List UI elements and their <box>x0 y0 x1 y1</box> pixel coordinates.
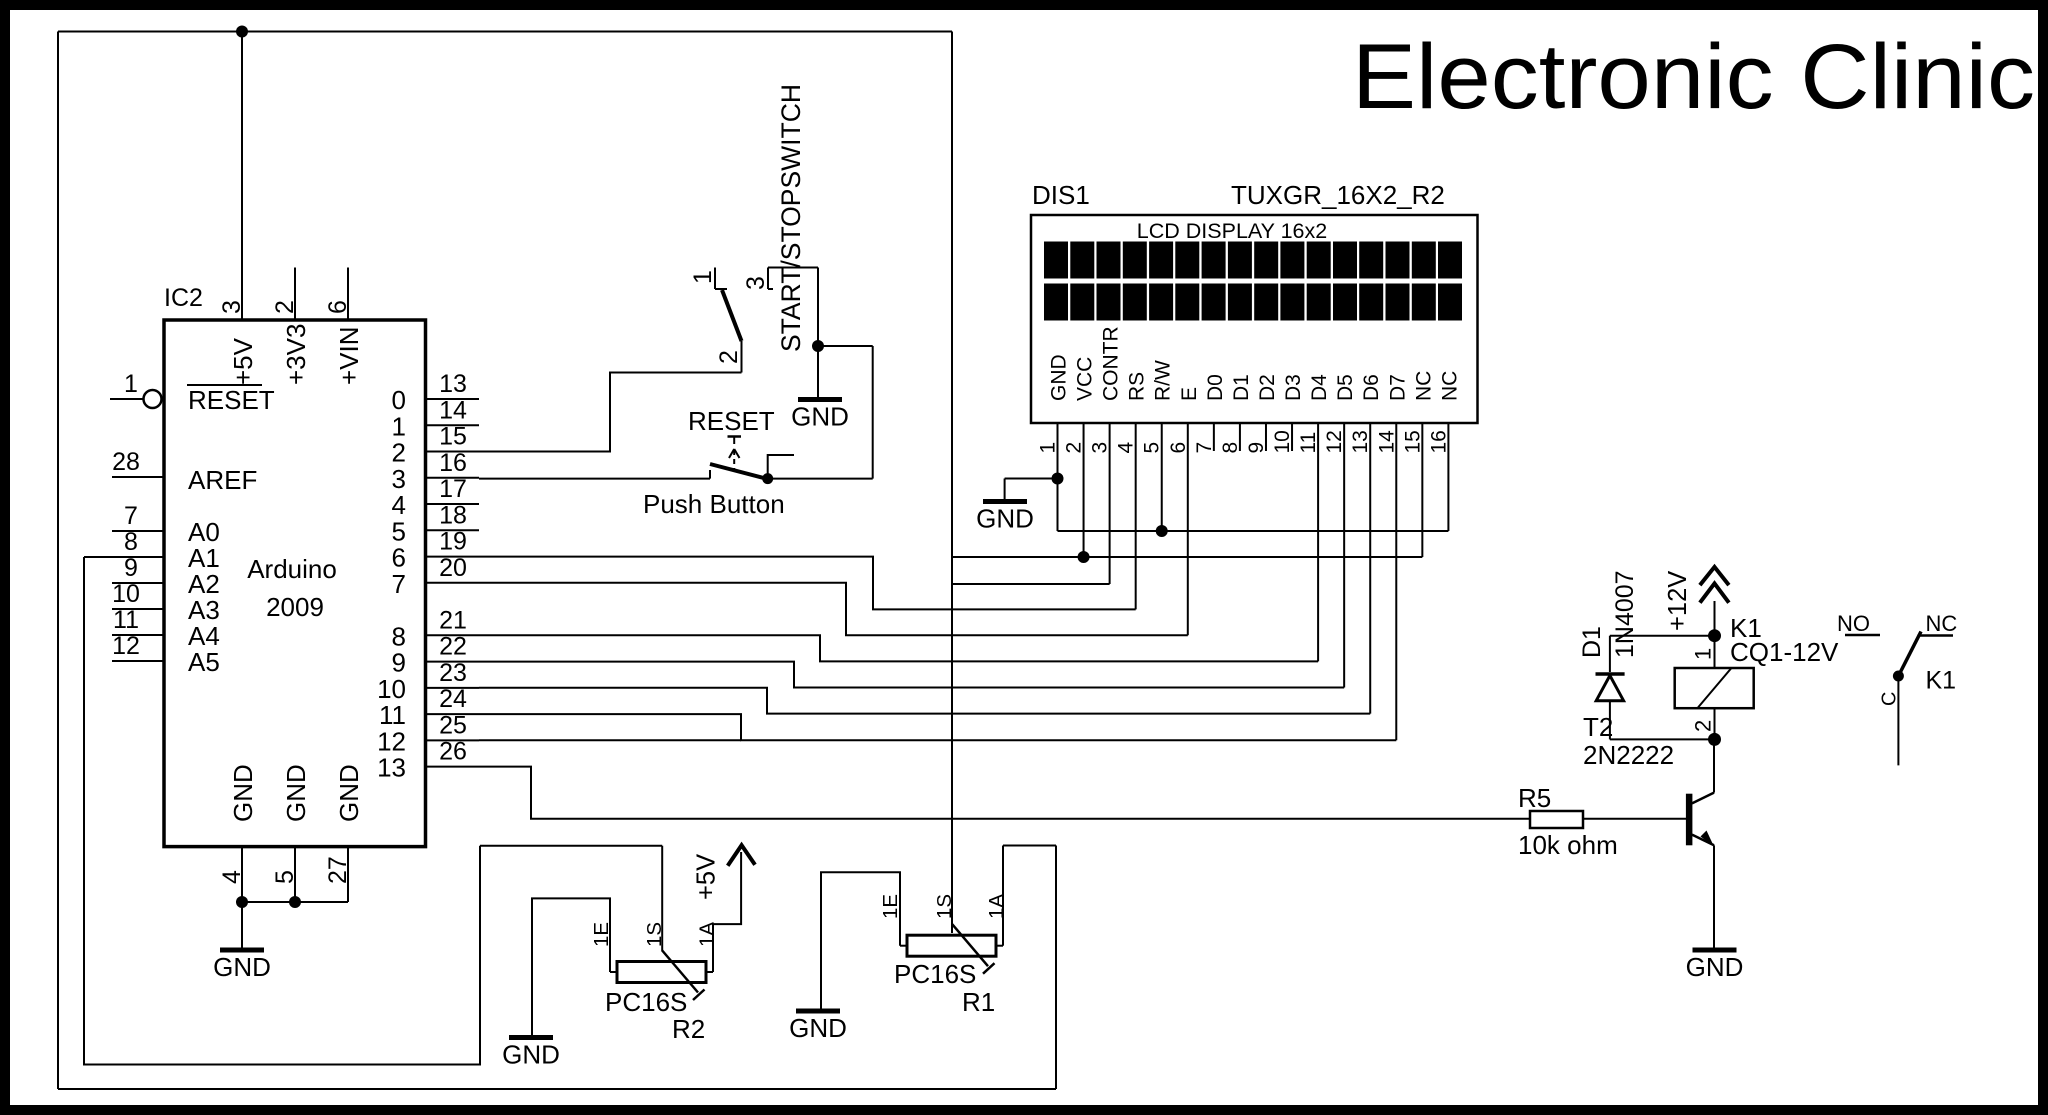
svg-text:1: 1 <box>1691 648 1716 660</box>
svg-text:GND: GND <box>213 952 271 982</box>
svg-text:R/W: R/W <box>1152 360 1175 401</box>
svg-text:14: 14 <box>1375 430 1398 454</box>
svg-text:4: 4 <box>218 870 246 884</box>
svg-text:+5V: +5V <box>693 854 721 900</box>
svg-text:21: 21 <box>439 606 467 634</box>
svg-text:PC16S: PC16S <box>605 987 687 1017</box>
svg-text:NC: NC <box>1926 611 1958 636</box>
svg-text:NC: NC <box>1412 371 1435 401</box>
svg-text:R1: R1 <box>962 987 995 1017</box>
svg-text:7: 7 <box>1193 442 1216 454</box>
svg-text:2009: 2009 <box>266 592 324 622</box>
svg-text:D2: D2 <box>1256 374 1279 401</box>
svg-text:AREF: AREF <box>188 465 257 495</box>
svg-text:9: 9 <box>1245 442 1268 454</box>
svg-text:22: 22 <box>439 633 467 661</box>
svg-text:+12V: +12V <box>1664 571 1692 631</box>
svg-text:6: 6 <box>324 300 352 314</box>
svg-text:10k ohm: 10k ohm <box>1518 830 1618 860</box>
svg-text:D3: D3 <box>1282 374 1305 401</box>
svg-text:TUXGR_16X2_R2: TUXGR_16X2_R2 <box>1231 180 1445 210</box>
svg-text:11: 11 <box>1297 432 1320 454</box>
svg-text:16: 16 <box>1427 430 1450 453</box>
svg-text:12: 12 <box>1323 430 1346 453</box>
svg-text:11: 11 <box>113 606 139 634</box>
svg-text:15: 15 <box>1401 430 1424 453</box>
svg-text:13: 13 <box>377 753 406 783</box>
svg-text:GND: GND <box>502 1040 560 1070</box>
svg-text:1N4007: 1N4007 <box>1611 570 1639 658</box>
svg-text:IC2: IC2 <box>164 284 203 312</box>
svg-text:GND: GND <box>334 764 364 822</box>
svg-text:RS: RS <box>1126 372 1149 401</box>
svg-text:23: 23 <box>439 659 467 687</box>
svg-text:24: 24 <box>439 685 467 713</box>
svg-text:NC: NC <box>1438 371 1461 401</box>
svg-text:25: 25 <box>439 711 467 739</box>
svg-text:1: 1 <box>1037 442 1060 454</box>
svg-text:LCD DISPLAY 16x2: LCD DISPLAY 16x2 <box>1137 219 1327 243</box>
svg-text:K1: K1 <box>1926 667 1957 695</box>
svg-text:GND: GND <box>281 764 311 822</box>
svg-text:RESET: RESET <box>188 385 275 415</box>
svg-text:5: 5 <box>271 870 299 884</box>
svg-text:2: 2 <box>271 300 299 314</box>
svg-text:1: 1 <box>124 370 138 398</box>
svg-text:1S: 1S <box>933 894 956 919</box>
svg-text:D0: D0 <box>1204 374 1227 401</box>
svg-text:+VIN: +VIN <box>334 326 364 385</box>
svg-text:28: 28 <box>112 448 140 476</box>
svg-text:9: 9 <box>124 554 138 582</box>
svg-text:GND: GND <box>791 402 849 432</box>
svg-text:1A: 1A <box>985 894 1008 919</box>
svg-text:R2: R2 <box>672 1014 705 1044</box>
svg-text:1E: 1E <box>879 894 902 919</box>
svg-text:7: 7 <box>124 502 138 530</box>
svg-text:+3V3: +3V3 <box>281 324 311 385</box>
svg-text:10: 10 <box>1271 430 1294 453</box>
svg-text:RESET: RESET <box>688 406 775 436</box>
svg-text:D1: D1 <box>1578 626 1606 658</box>
svg-text:10: 10 <box>112 580 140 608</box>
svg-text:17: 17 <box>439 475 467 503</box>
svg-text:2: 2 <box>715 350 743 364</box>
svg-text:CONTR: CONTR <box>1100 326 1123 401</box>
svg-text:D1: D1 <box>1230 374 1253 401</box>
svg-text:18: 18 <box>439 501 467 529</box>
svg-text:2N2222: 2N2222 <box>1583 740 1674 770</box>
svg-text:D4: D4 <box>1308 374 1331 401</box>
svg-text:16: 16 <box>439 449 467 477</box>
svg-text:NO: NO <box>1837 611 1870 636</box>
svg-text:5: 5 <box>1141 442 1164 454</box>
svg-text:26: 26 <box>439 738 467 766</box>
svg-text:4: 4 <box>1115 442 1138 454</box>
svg-text:START/STOPSWITCH: START/STOPSWITCH <box>776 84 806 352</box>
svg-text:2: 2 <box>1063 442 1086 454</box>
svg-text:27: 27 <box>324 856 352 884</box>
svg-text:8: 8 <box>1219 442 1242 454</box>
svg-text:3: 3 <box>742 276 770 290</box>
svg-text:12: 12 <box>112 632 140 660</box>
svg-text:3: 3 <box>1089 442 1112 454</box>
svg-text:T2: T2 <box>1583 712 1613 742</box>
svg-text:Push Button: Push Button <box>643 489 785 519</box>
svg-text:VCC: VCC <box>1074 357 1097 401</box>
svg-text:6: 6 <box>1167 442 1190 454</box>
svg-text:D6: D6 <box>1360 374 1383 401</box>
svg-text:8: 8 <box>124 528 138 556</box>
svg-text:A5: A5 <box>188 647 220 677</box>
svg-text:14: 14 <box>439 396 467 424</box>
svg-text:DIS1: DIS1 <box>1032 180 1090 210</box>
svg-text:Electronic Clinic: Electronic Clinic <box>1352 26 2035 128</box>
svg-text:GND: GND <box>228 764 258 822</box>
svg-text:15: 15 <box>439 423 467 451</box>
svg-text:GND: GND <box>1048 354 1071 401</box>
svg-text:13: 13 <box>1349 430 1372 453</box>
svg-text:3: 3 <box>218 300 246 314</box>
svg-text:20: 20 <box>439 554 467 582</box>
svg-text:13: 13 <box>439 370 467 398</box>
svg-text:D5: D5 <box>1334 374 1357 401</box>
svg-text:+5V: +5V <box>228 337 258 385</box>
svg-text:2: 2 <box>1691 720 1716 732</box>
svg-text:1: 1 <box>689 270 717 284</box>
svg-text:CQ1-12V: CQ1-12V <box>1730 637 1839 667</box>
svg-text:GND: GND <box>1686 952 1744 982</box>
svg-text:1A: 1A <box>696 922 719 947</box>
svg-text:7: 7 <box>392 569 406 599</box>
svg-text:E: E <box>1178 387 1201 401</box>
svg-text:GND: GND <box>976 504 1034 534</box>
svg-text:PC16S: PC16S <box>894 959 976 989</box>
svg-text:GND: GND <box>789 1013 847 1043</box>
svg-text:19: 19 <box>439 528 467 556</box>
svg-text:D7: D7 <box>1386 374 1409 401</box>
svg-text:C: C <box>1879 692 1901 706</box>
svg-text:R5: R5 <box>1518 783 1551 813</box>
svg-text:Arduino: Arduino <box>247 554 337 584</box>
